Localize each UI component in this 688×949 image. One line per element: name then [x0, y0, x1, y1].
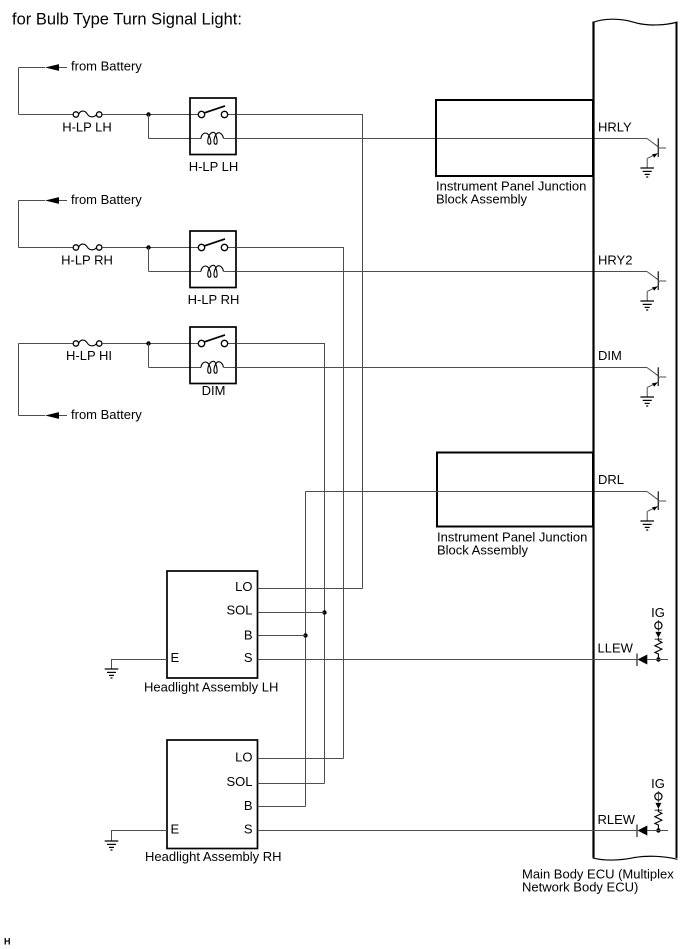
svg-text:for Bulb Type Turn Signal Ligh: for Bulb Type Turn Signal Light: [12, 11, 242, 29]
junction block 2 box [437, 453, 593, 527]
wire battery riser 1 [18, 68, 20, 115]
svg-text:Block Assembly: Block Assembly [437, 543, 529, 558]
svg-text:S: S [244, 650, 253, 665]
wire RH S to RLEW diode [258, 830, 638, 832]
svg-text:Network Body ECU): Network Body ECU) [522, 880, 638, 895]
svg-text:from Battery: from Battery [71, 407, 142, 422]
wire relay1 switch output to LH LO [236, 115, 363, 589]
wire LH E to ground [112, 660, 168, 670]
wire DRL to B bus [306, 491, 648, 493]
wire relay3 coil to DIM pin [236, 367, 647, 369]
svg-text:HRLY: HRLY [598, 120, 632, 135]
svg-text:HRY2: HRY2 [598, 253, 632, 268]
ECU box top torn edge [593, 19, 678, 25]
svg-text:H-LP LH: H-LP LH [189, 159, 239, 174]
svg-text:SOL: SOL [226, 603, 252, 618]
wire relay1 coil to HRLY pin [236, 138, 647, 140]
svg-text:H-LP HI: H-LP HI [66, 348, 112, 363]
svg-text:Headlight Assembly RH: Headlight Assembly RH [145, 849, 282, 864]
svg-text:Block Assembly: Block Assembly [436, 192, 528, 207]
diode D2 with IG resistor at RLEW [637, 776, 668, 837]
wire battery riser 3 [18, 344, 20, 416]
svg-text:from Battery: from Battery [71, 59, 142, 74]
Headlight Assembly LH box [167, 571, 258, 678]
svg-text:SOL: SOL [226, 774, 252, 789]
svg-text:LLEW: LLEW [598, 641, 634, 656]
wire RH B [258, 806, 306, 808]
transistor Q3 [640, 367, 666, 406]
wire relay2 coil to HRY2 pin [236, 271, 647, 273]
wire RH SOL [258, 783, 325, 785]
wire LH LO [258, 588, 363, 590]
svg-text:H-LP RH: H-LP RH [188, 292, 240, 307]
svg-text:B: B [244, 798, 253, 813]
fuse H-LP LH with relay H-LP LH [19, 98, 237, 155]
svg-text:E: E [171, 822, 180, 837]
wire RH LO [258, 758, 344, 760]
transistor Q4 [640, 491, 666, 530]
ground RH [105, 841, 119, 850]
svg-text:B: B [244, 628, 253, 643]
fuse H-LP RH with relay H-LP RH [19, 231, 237, 288]
svg-text:LO: LO [235, 579, 252, 594]
diode D1 with IG resistor at LLEW [637, 605, 668, 666]
wire battery riser 2 [18, 201, 20, 248]
transistor Q1 [640, 138, 666, 177]
svg-text:Headlight Assembly LH: Headlight Assembly LH [144, 680, 278, 695]
svg-text:DIM: DIM [598, 348, 622, 363]
battery arrow 3 [19, 412, 68, 419]
fuse H-LP HI with relay DIM [19, 327, 237, 384]
svg-text:from Battery: from Battery [71, 192, 142, 207]
wire relay2 switch output to RH LO [236, 248, 344, 759]
svg-text:RLEW: RLEW [598, 812, 636, 827]
wire B bus vertical [305, 492, 307, 807]
node SOL junction [322, 610, 326, 614]
transistor Q2 [640, 271, 666, 310]
svg-text:DRL: DRL [598, 472, 624, 487]
svg-text:E: E [171, 650, 180, 665]
ground LH [105, 669, 119, 678]
battery arrow 1 [19, 64, 68, 71]
wire relay3 switch output to SOL bus [236, 344, 325, 784]
svg-text:LO: LO [235, 750, 252, 765]
svg-text:H-LP RH: H-LP RH [61, 253, 113, 268]
wire LH B [258, 635, 306, 637]
svg-text:S: S [244, 822, 253, 837]
battery arrow 2 [19, 197, 68, 204]
ECU box left edge [592, 22, 594, 858]
wire RH E to ground [112, 831, 168, 842]
wire LH S to LLEW diode [258, 659, 638, 661]
svg-text:H: H [4, 937, 11, 947]
Headlight Assembly RH box [167, 740, 258, 849]
junction block 1 box [436, 100, 593, 176]
ECU box right edge [676, 23, 678, 859]
svg-text:DIM: DIM [202, 383, 226, 398]
wire LH SOL [258, 612, 325, 614]
svg-text:H-LP LH: H-LP LH [62, 120, 112, 135]
ECU box bottom torn edge [593, 856, 678, 860]
node B junction [303, 633, 307, 637]
